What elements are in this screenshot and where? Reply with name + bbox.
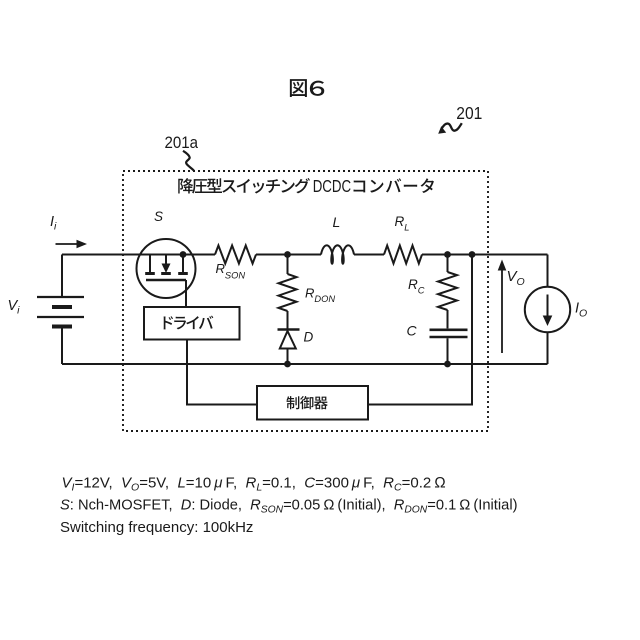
svg-text:VI=12V, VO=5V, L=10 μ F, RL: VI=12V, VO=5V, L=10 μ F, RL=0.1, C=300 μ…	[62, 474, 446, 493]
svg-text:Ii: Ii	[50, 214, 57, 233]
svg-text:201a: 201a	[165, 134, 199, 152]
svg-text:RSON: RSON	[216, 261, 246, 281]
svg-text:D: D	[304, 330, 314, 345]
svg-text:DCDC: DCDC	[313, 176, 351, 196]
svg-text:RC: RC	[408, 277, 425, 296]
svg-text:S: Nch-MOSFET, D: Diode, RSO: S: Nch-MOSFET, D: Diode, RSON=0.05 Ω (In…	[60, 498, 517, 516]
svg-text:Switching frequency: 100kHz: Switching frequency: 100kHz	[60, 519, 253, 536]
svg-text:VO: VO	[507, 268, 525, 288]
svg-text:RL: RL	[395, 214, 410, 233]
svg-text:IO: IO	[575, 301, 587, 320]
svg-text:201: 201	[456, 103, 482, 123]
svg-text:S: S	[154, 209, 163, 224]
svg-text:L: L	[333, 214, 341, 230]
svg-text:RDON: RDON	[305, 285, 335, 304]
svg-text:C: C	[407, 323, 418, 339]
svg-text:Vi: Vi	[8, 298, 21, 317]
